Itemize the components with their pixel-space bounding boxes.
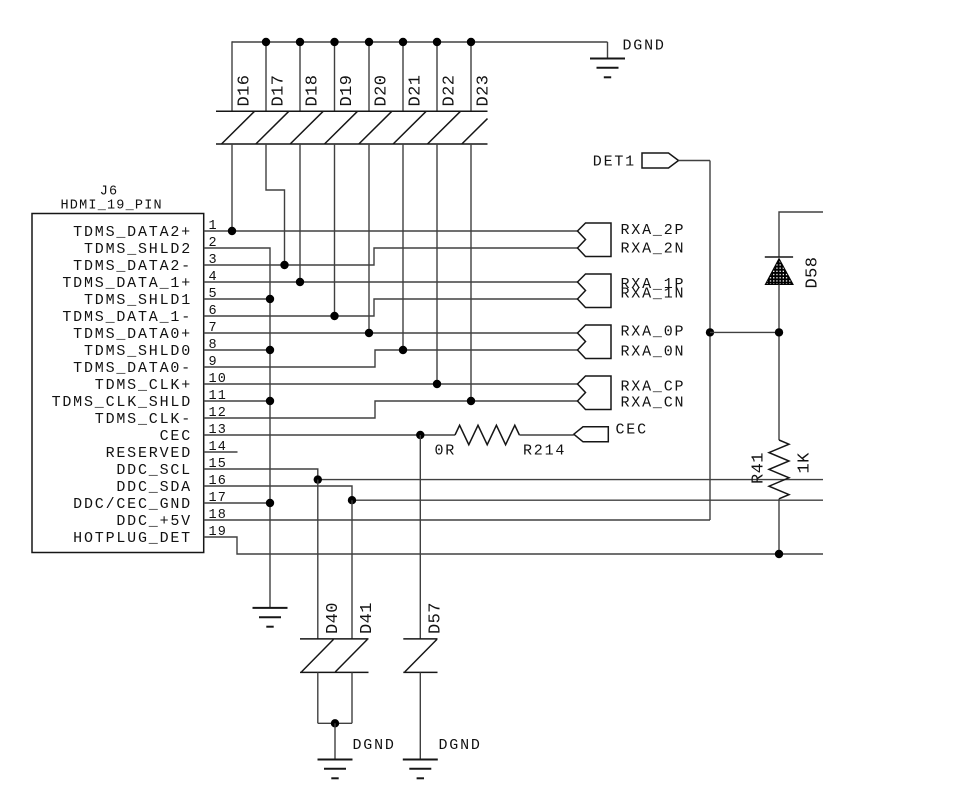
wire diode D16 top lead bbox=[231, 41, 233, 111]
wire D21 bottom lead to RXA_0N row bbox=[402, 144, 404, 350]
junction bus-D21 bbox=[399, 38, 407, 46]
diode pack D40 D41 bbox=[300, 639, 369, 673]
svg-text:0R: 0R bbox=[435, 443, 457, 460]
junction R41-HOTPLUG bbox=[775, 550, 783, 558]
junction DDC_SDA-D41 bbox=[348, 496, 356, 504]
svg-text:18: 18 bbox=[209, 508, 228, 523]
wire pin7 TDMS_DATA0+ to RXA_0P bbox=[204, 332, 578, 334]
resistor R214 0R bbox=[455, 425, 574, 444]
wire pin2 TDMS_SHLD2 to shield column bbox=[204, 248, 270, 607]
ground DGND bottom right bbox=[403, 760, 438, 779]
wire pin6 TDMS_DATA_1- to RXA_1N bbox=[204, 299, 578, 316]
svg-text:D18: D18 bbox=[304, 75, 323, 107]
svg-text:D41: D41 bbox=[358, 602, 377, 634]
svg-text:CEC: CEC bbox=[160, 428, 192, 445]
svg-text:D23: D23 bbox=[475, 75, 494, 107]
svg-text:RXA_1N: RXA_1N bbox=[621, 286, 686, 303]
svg-text:D21: D21 bbox=[407, 75, 426, 107]
svg-text:10: 10 bbox=[209, 372, 228, 387]
svg-text:TDMS_DATA_1-: TDMS_DATA_1- bbox=[62, 309, 192, 326]
svg-text:TDMS_CLK-: TDMS_CLK- bbox=[95, 411, 192, 428]
svg-text:TDMS_DATA0-: TDMS_DATA0- bbox=[73, 360, 192, 377]
diode array band D16-D23 bbox=[216, 111, 488, 144]
svg-text:D58: D58 bbox=[804, 257, 823, 289]
svg-text:TDMS_DATA2-: TDMS_DATA2- bbox=[73, 258, 192, 275]
svg-text:19: 19 bbox=[209, 525, 228, 540]
wire diode D19 top lead bbox=[334, 41, 336, 111]
wire D57 bottom lead bbox=[419, 672, 421, 759]
junction pin4-D18 bbox=[296, 278, 304, 286]
svg-text:DDC_+5V: DDC_+5V bbox=[116, 513, 192, 530]
wire DET1 to vertical bbox=[679, 160, 711, 162]
svg-text:R214: R214 bbox=[523, 443, 566, 460]
wire D40 top lead bbox=[317, 480, 319, 639]
svg-text:8: 8 bbox=[209, 338, 218, 353]
svg-text:7: 7 bbox=[209, 321, 218, 336]
wire pin18 DDC_+5V to DET1 net bbox=[204, 519, 710, 521]
wire D40 bottom lead bbox=[317, 672, 319, 723]
junction pin12-D23 bbox=[467, 397, 475, 405]
wire pin15 DDC_SCL bbox=[204, 469, 823, 480]
diode D58 bbox=[765, 257, 793, 285]
svg-text:2: 2 bbox=[209, 236, 218, 251]
svg-text:DDC_SDA: DDC_SDA bbox=[116, 479, 192, 496]
wire DET1 to D58/R41 bbox=[710, 331, 779, 333]
resistor R41 1K bbox=[769, 440, 789, 499]
svg-text:12: 12 bbox=[209, 406, 228, 421]
junction pin7-D20 bbox=[365, 329, 373, 337]
svg-text:TDMS_DATA_1+: TDMS_DATA_1+ bbox=[62, 275, 192, 292]
junction bus-D23 bbox=[467, 38, 475, 46]
svg-text:DDC/CEC_GND: DDC/CEC_GND bbox=[73, 496, 192, 513]
junction pin10-D22 bbox=[433, 380, 441, 388]
wire D17 bottom lead jog to pin3 row bbox=[266, 144, 285, 265]
junction D40-D41 bbox=[331, 719, 339, 727]
wire D40-D41 join bbox=[318, 722, 352, 724]
svg-text:D40: D40 bbox=[324, 602, 343, 634]
svg-text:TDMS_SHLD0: TDMS_SHLD0 bbox=[84, 343, 192, 360]
ground DGND bottom left bbox=[318, 760, 353, 779]
connector DET1 bbox=[593, 153, 679, 171]
svg-text:1: 1 bbox=[209, 219, 218, 234]
svg-text:RXA_CP: RXA_CP bbox=[621, 378, 686, 395]
svg-text:4: 4 bbox=[209, 270, 218, 285]
junction bus-D17 bbox=[262, 38, 270, 46]
junction pin9-D21 bbox=[399, 346, 407, 354]
svg-text:HOTPLUG_DET: HOTPLUG_DET bbox=[73, 530, 192, 547]
svg-text:17: 17 bbox=[209, 491, 228, 506]
wire pin5 TDMS_SHLD1 stub bbox=[204, 298, 270, 300]
svg-text:14: 14 bbox=[209, 440, 228, 455]
wire DET1 net vertical bbox=[709, 161, 711, 521]
junction pin5-shield bbox=[266, 295, 274, 303]
svg-text:TDMS_DATA0+: TDMS_DATA0+ bbox=[73, 326, 192, 343]
svg-text:TDMS_CLK+: TDMS_CLK+ bbox=[95, 377, 192, 394]
wire D19 bottom lead to pin6 row bbox=[334, 144, 336, 316]
wire D58 to junction bbox=[778, 285, 780, 441]
wire D22 bottom lead to pin10 row bbox=[436, 144, 438, 384]
ground shield column bbox=[253, 608, 288, 627]
wire R41 bottom bbox=[778, 499, 780, 554]
junction DDC_SCL-D40 bbox=[314, 475, 322, 483]
wire pin8 TDMS_SHLD0 stub bbox=[204, 349, 270, 351]
connector RXA_CP/RXA_CN bbox=[578, 376, 686, 411]
diode D57 bbox=[403, 639, 437, 673]
wire pin13 CEC to R214 bbox=[204, 434, 455, 436]
svg-text:9: 9 bbox=[209, 355, 218, 370]
junction pin3-D17 bbox=[280, 261, 288, 269]
svg-text:TDMS_SHLD2: TDMS_SHLD2 bbox=[84, 241, 192, 258]
wire pin12 TDMS_CLK- to RXA_CN bbox=[204, 401, 578, 418]
junction pin13-D57 bbox=[416, 431, 424, 439]
junction pin11-shield bbox=[266, 397, 274, 405]
svg-text:R41: R41 bbox=[749, 452, 768, 484]
svg-text:RXA_2N: RXA_2N bbox=[621, 241, 686, 258]
wire pin10 TDMS_CLK+ to RXA_CP bbox=[204, 383, 578, 385]
junction pin6-D19 bbox=[330, 312, 338, 320]
wire pin3 TDMS_DATA2- to RXA_2N bbox=[204, 248, 578, 265]
svg-text:D22: D22 bbox=[441, 75, 460, 107]
wire pin17 DDC/CEC_GND stub bbox=[204, 502, 270, 504]
wire diode D18 top lead bbox=[299, 41, 301, 111]
svg-text:5: 5 bbox=[209, 287, 218, 302]
connector RXA_2P/RXA_2N bbox=[578, 222, 686, 257]
svg-text:3: 3 bbox=[209, 253, 218, 268]
svg-text:TDMS_DATA2+: TDMS_DATA2+ bbox=[73, 224, 192, 241]
wire diode D22 top lead bbox=[436, 41, 438, 111]
wire D20 bottom lead to pin7 row bbox=[368, 144, 370, 333]
wire pin14 RESERVED stub bbox=[204, 451, 238, 453]
junction pin8-shield bbox=[266, 346, 274, 354]
svg-text:DET1: DET1 bbox=[593, 154, 636, 171]
junction bus-D18 bbox=[296, 38, 304, 46]
svg-text:D20: D20 bbox=[373, 75, 392, 107]
connector CEC bbox=[574, 422, 648, 442]
wire pin1 TDMS_DATA2+ to RXA_2P bbox=[204, 230, 578, 232]
wire pin11 TDMS_CLK_SHLD stub bbox=[204, 400, 270, 402]
svg-text:RXA_CN: RXA_CN bbox=[621, 394, 686, 411]
wire D18 bottom lead to pin4 row bbox=[299, 144, 301, 282]
junction bus-D22 bbox=[433, 38, 441, 46]
wire D57 top lead bbox=[419, 435, 421, 639]
connector J6 HDMI_19_PIN box bbox=[32, 214, 204, 553]
wire D58 top to edge bbox=[779, 212, 823, 257]
wire top ground bus bbox=[232, 41, 608, 43]
svg-text:D16: D16 bbox=[236, 75, 255, 107]
wire to DGND bottom left bbox=[334, 723, 336, 759]
svg-text:D19: D19 bbox=[338, 75, 357, 107]
wire D16 bottom lead to pin1 row bbox=[231, 144, 233, 231]
svg-text:J6: J6 bbox=[100, 185, 119, 200]
svg-text:DDC_SCL: DDC_SCL bbox=[116, 462, 192, 479]
svg-text:RXA_0P: RXA_0P bbox=[621, 323, 686, 340]
svg-text:16: 16 bbox=[209, 474, 228, 489]
junction pin17-shield bbox=[266, 499, 274, 507]
wire D41 bottom lead bbox=[351, 672, 353, 723]
wire diode D21 top lead bbox=[402, 41, 404, 111]
connector RXA_0P/RXA_0N bbox=[578, 323, 686, 360]
junction bus-D19 bbox=[330, 38, 338, 46]
svg-text:DGND: DGND bbox=[439, 737, 482, 754]
svg-text:D57: D57 bbox=[427, 602, 446, 634]
svg-text:TDMS_SHLD1: TDMS_SHLD1 bbox=[84, 292, 192, 309]
junction pin1-D16 bbox=[228, 227, 236, 235]
wire diode D17 top lead bbox=[265, 41, 267, 111]
svg-text:15: 15 bbox=[209, 457, 228, 472]
svg-text:DGND: DGND bbox=[623, 37, 666, 54]
svg-text:RXA_2P: RXA_2P bbox=[621, 222, 686, 239]
wire diode D20 top lead bbox=[368, 41, 370, 111]
wire D23 bottom lead to RXA_CN row bbox=[470, 144, 472, 401]
svg-text:11: 11 bbox=[209, 389, 228, 404]
svg-text:HDMI_19_PIN: HDMI_19_PIN bbox=[61, 199, 163, 214]
wire diode D23 top lead bbox=[470, 41, 472, 111]
svg-text:1K: 1K bbox=[796, 452, 815, 474]
wire pin16 DDC_SDA bbox=[204, 486, 823, 500]
ground DGND top bbox=[607, 42, 609, 59]
junction D58-R41 bbox=[775, 328, 783, 336]
svg-text:RXA_0N: RXA_0N bbox=[621, 343, 686, 360]
svg-text:DGND: DGND bbox=[353, 737, 396, 754]
svg-text:RESERVED: RESERVED bbox=[106, 445, 192, 462]
junction DET1-D58 branch bbox=[706, 328, 714, 336]
junction bus-D20 bbox=[365, 38, 373, 46]
connector RXA_1P/RXA_1N bbox=[578, 274, 686, 308]
svg-text:CEC: CEC bbox=[616, 422, 648, 439]
wire D41 top lead bbox=[351, 500, 353, 639]
wire pin9 TDMS_DATA0- to RXA_0N bbox=[204, 350, 578, 367]
wire pin4 TDMS_DATA_1+ to RXA_1P bbox=[204, 281, 578, 283]
wire pin19 HOTPLUG_DET bbox=[204, 537, 823, 554]
svg-text:TDMS_CLK_SHLD: TDMS_CLK_SHLD bbox=[52, 394, 192, 411]
svg-text:13: 13 bbox=[209, 423, 228, 438]
svg-text:D17: D17 bbox=[270, 75, 289, 107]
svg-text:6: 6 bbox=[209, 304, 218, 319]
